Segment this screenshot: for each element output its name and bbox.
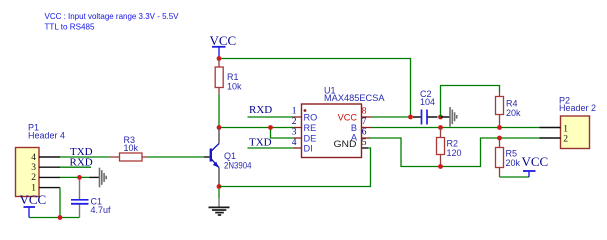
wire P1 pin4 lead [39,156,60,158]
svg-text:2: 2 [563,135,568,145]
node R5 top junction [497,136,502,141]
wire R3 to Q1 base [148,156,205,158]
svg-text:R2: R2 [447,139,459,149]
power VCC top [210,33,237,59]
svg-text:3: 3 [292,128,297,138]
svg-text:MAX485ECSA: MAX485ECSA [324,93,385,103]
svg-text:Header 4: Header 4 [28,131,65,141]
svg-text:Q1: Q1 [224,151,236,161]
wire U1 pin7 B row [362,127,372,129]
wire R1 to collector node [218,94,220,128]
svg-text:4.7uf: 4.7uf [91,205,112,215]
svg-text:1: 1 [292,107,297,117]
svg-text:RE: RE [304,123,317,133]
node C1 top junction [77,175,82,180]
wire to ground symbol [441,116,450,118]
wire emitter to U1 GND pin5 [219,148,371,187]
wire P1 pin1 lead [39,187,60,189]
node VCC feed junction [408,115,413,120]
svg-text:DE: DE [304,133,317,143]
node RE/DE junction [268,125,273,130]
svg-text:2: 2 [292,117,297,127]
ground (right of P1 pin2) [100,168,107,188]
svg-text:VCC: VCC [20,192,47,207]
svg-text:20k: 20k [506,158,521,168]
svg-text:104: 104 [420,97,435,107]
wire base lead [204,156,210,158]
resistor R2 120 [437,128,462,167]
connector P1 Header 4 [16,123,66,197]
svg-text:VCC: VCC [210,33,237,48]
wire P1 pin1 down [59,188,61,218]
transistor Q1 2N3904 [211,128,252,187]
wire bottom rail [29,217,80,219]
ground (right of C2) [450,107,457,127]
svg-text:4: 4 [292,138,297,148]
svg-text:RXD: RXD [249,104,272,116]
svg-text:B: B [351,123,357,133]
svg-text:3: 3 [31,163,36,173]
svg-text:2: 2 [31,173,36,183]
wire P1 pin3 lead [39,166,60,168]
svg-text:10k: 10k [124,143,139,153]
svg-text:TXD: TXD [249,137,272,149]
node C2/ground junction [438,115,443,120]
power VCC bottom-left [20,192,47,218]
node collector junction [217,125,222,130]
svg-text:10k: 10k [227,82,242,92]
wire R5 bottom to VCC [500,176,530,178]
svg-text:2N3904: 2N3904 [224,161,252,171]
node R2 bottom junction [438,164,443,169]
svg-text:20k: 20k [506,108,521,118]
svg-text:RXD: RXD [70,156,93,168]
resistor R1 [215,59,242,95]
svg-text:R5: R5 [506,149,518,159]
wire P2 pin1 lead [540,127,561,129]
svg-text:6: 6 [362,128,367,138]
svg-text:7: 7 [362,117,367,127]
connector P2 Header 2 [559,96,596,149]
wire RE-DE branch [271,128,294,139]
node pin1/bottom junction [58,215,63,220]
wire VCC top rail [219,59,411,118]
wire P2 pin2 lead [540,137,561,139]
svg-text:5: 5 [362,138,367,148]
resistor R3 10k [109,135,148,161]
node R4 bottom junction [497,125,502,130]
wire P1 pin2 to ground [60,176,90,178]
svg-text:R1: R1 [227,72,239,82]
wire U1 pin6 A row with detour [362,137,370,139]
svg-text:RO: RO [304,112,318,122]
svg-text:1: 1 [563,124,568,134]
resistor R5 20k [496,138,521,177]
node VCC/R1 junction [217,56,222,61]
wire collector node to U1 RE [219,127,294,129]
svg-text:Header 2: Header 2 [559,103,596,113]
node R2 top junction [438,125,443,130]
resistor R4 20k [496,92,522,128]
svg-text:DI: DI [304,143,313,153]
svg-text:GND: GND [334,139,357,149]
svg-text:R4: R4 [506,99,518,109]
svg-text:4: 4 [31,153,36,163]
power VCC right [522,154,549,177]
ground under Q1 [209,189,230,215]
wire RXD to U1 pin1 [248,116,294,118]
capacitor C2 104 [413,89,438,125]
node emitter junction [217,184,222,189]
wire P1 pin2 lead [39,176,60,178]
wire U1 pin8 VCC row [362,116,372,118]
wire TXD to U1 pin4 [248,147,294,149]
wire P1 pin4 to R3 [60,156,109,158]
svg-text:120: 120 [447,148,462,158]
wire P1 pin3 RXD stub [60,166,91,168]
svg-text:TTL to RS485: TTL to RS485 [45,22,95,32]
capacitor C1 4.7uf [71,180,111,218]
svg-text:VCC : Input voltage range 3.3V: VCC : Input voltage range 3.3V - 5.5V [45,11,179,21]
wire gnd-node to R4 top [441,86,500,118]
svg-text:VCC: VCC [522,154,549,169]
svg-text:8: 8 [362,107,367,117]
op IC U1 MAX485ECSA [292,86,385,158]
svg-text:VCC: VCC [338,112,358,122]
